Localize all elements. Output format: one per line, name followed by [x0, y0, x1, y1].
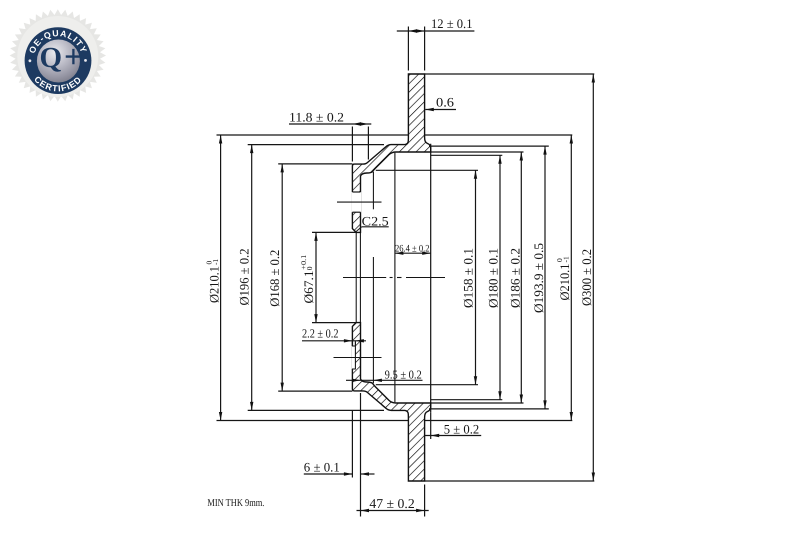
- C2.5 leader: [356, 227, 362, 232]
- svg-text:Ø196 ± 0.2: Ø196 ± 0.2: [237, 249, 252, 306]
- svg-text:0: 0: [305, 266, 314, 270]
- arrowheads: [408, 29, 417, 32]
- svg-text:Ø168 ± 0.2: Ø168 ± 0.2: [267, 250, 282, 307]
- svg-text:-1: -1: [211, 259, 220, 265]
- svg-text:Ø210.1: Ø210.1: [557, 264, 572, 301]
- svg-text:12 ± 0.1: 12 ± 0.1: [431, 16, 473, 31]
- dimension lines: [221, 31, 594, 511]
- svg-text:6 ± 0.1: 6 ± 0.1: [304, 460, 340, 475]
- svg-text:9.5 ± 0.2: 9.5 ± 0.2: [385, 368, 422, 382]
- svg-text:Ø193.9 ± 0.5: Ø193.9 ± 0.5: [531, 243, 546, 313]
- svg-text:5 ± 0.2: 5 ± 0.2: [444, 422, 479, 437]
- svg-text:MIN THK 9mm.: MIN THK 9mm.: [207, 498, 264, 509]
- svg-text:Ø186 ± 0.2: Ø186 ± 0.2: [508, 248, 523, 308]
- svg-text:Ø300 ± 0.2: Ø300 ± 0.2: [579, 249, 594, 306]
- bolt hole void (upper half): [352, 192, 362, 212]
- svg-text:47 ± 0.2: 47 ± 0.2: [369, 496, 414, 511]
- svg-text:Ø67.1: Ø67.1: [301, 271, 316, 304]
- extension lines: [217, 27, 595, 517]
- svg-text:Q: Q: [40, 42, 63, 74]
- svg-text:Ø210.1: Ø210.1: [207, 266, 222, 303]
- dimension texts: [207, 16, 479, 511]
- visible edges inside hat recess: [356, 144, 431, 413]
- rotated diameter labels: [205, 243, 594, 313]
- svg-text:2.2 ± 0.2: 2.2 ± 0.2: [302, 326, 339, 340]
- brake disc cross-section: hatched cut regions: [352, 74, 430, 481]
- svg-text:0.6: 0.6: [436, 95, 455, 110]
- svg-text:-1: -1: [562, 256, 571, 262]
- svg-text:+: +: [64, 40, 83, 76]
- flange face groove (lower half): [352, 346, 356, 369]
- centerlines: [334, 202, 446, 357]
- OE-Quality certified badge: [10, 9, 106, 102]
- svg-text:26.4 ± 0.2: 26.4 ± 0.2: [395, 243, 430, 254]
- svg-text:Ø158 ± 0.1: Ø158 ± 0.1: [461, 248, 476, 308]
- svg-text:C2.5: C2.5: [362, 213, 389, 228]
- svg-text:11.8 ± 0.2: 11.8 ± 0.2: [289, 110, 344, 125]
- svg-text:Ø180 ± 0.1: Ø180 ± 0.1: [486, 248, 501, 308]
